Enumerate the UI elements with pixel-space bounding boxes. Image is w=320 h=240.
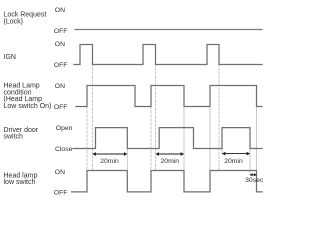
- wire: IGN waveform: [74, 45, 262, 65]
- svg-text:switch: switch: [4, 134, 24, 141]
- reference connector: lamp off (cycle2) x=184: [183, 107, 185, 171]
- arrow: 30sec span: [251, 174, 256, 176]
- reference connector: lamp off (cycle3) x=256.5: [256, 107, 258, 171]
- dashed reference: head lamp on (cycle2) x=151: [150, 107, 152, 171]
- wire: Lock Request OFF baseline: [75, 29, 262, 31]
- wire: Head lamp low switch waveform: [72, 171, 263, 192]
- svg-text:OFF: OFF: [54, 62, 68, 69]
- wire: Driver door switch waveform: [73, 128, 262, 149]
- dashed reference: head lamp on (cycle1) x=87: [86, 107, 88, 171]
- svg-text:30sec: 30sec: [245, 177, 264, 184]
- svg-text:ON: ON: [55, 7, 65, 14]
- svg-text:IGN: IGN: [4, 54, 16, 61]
- svg-text:ON: ON: [55, 169, 65, 176]
- svg-text:Low switch On): Low switch On): [4, 103, 52, 110]
- svg-text:OFF: OFF: [54, 190, 68, 197]
- reference: head lamp on (cycle3) x=210: [209, 107, 211, 171]
- dashed reference: IGN off (cycle3) x=219: [218, 64, 220, 171]
- svg-text:(Lock): (Lock): [4, 18, 23, 25]
- svg-text:OFF: OFF: [54, 104, 68, 111]
- svg-text:ON: ON: [55, 41, 65, 48]
- svg-text:Close: Close: [55, 146, 73, 153]
- dashed reference: IGN off (cycle1) x=92.5: [92, 64, 94, 171]
- wire: Head Lamp condition waveform: [76, 86, 262, 107]
- dashed reference: IGN off (cycle2) x=155.5: [155, 64, 157, 171]
- reference connector: lamp/door off (cycle1) x=127.3: [126, 149, 128, 171]
- reference: door close (cycle3) x=250: [249, 149, 251, 176]
- arrow: 20min span cycle3: [223, 153, 249, 155]
- svg-text:20min: 20min: [100, 158, 119, 165]
- svg-text:OFF: OFF: [54, 28, 68, 35]
- svg-text:Head Lamp: Head Lamp: [4, 82, 40, 89]
- svg-text:low switch: low switch: [4, 179, 36, 186]
- arrow: 20min span cycle2: [157, 153, 183, 155]
- svg-text:Open: Open: [56, 125, 73, 132]
- svg-text:20min: 20min: [224, 158, 243, 165]
- svg-text:20min: 20min: [161, 158, 180, 165]
- arrow: 20min span cycle1: [94, 153, 127, 155]
- svg-text:ON: ON: [55, 83, 65, 90]
- reference: door open (cycle3) x=222 tick below close line: [221, 149, 223, 155]
